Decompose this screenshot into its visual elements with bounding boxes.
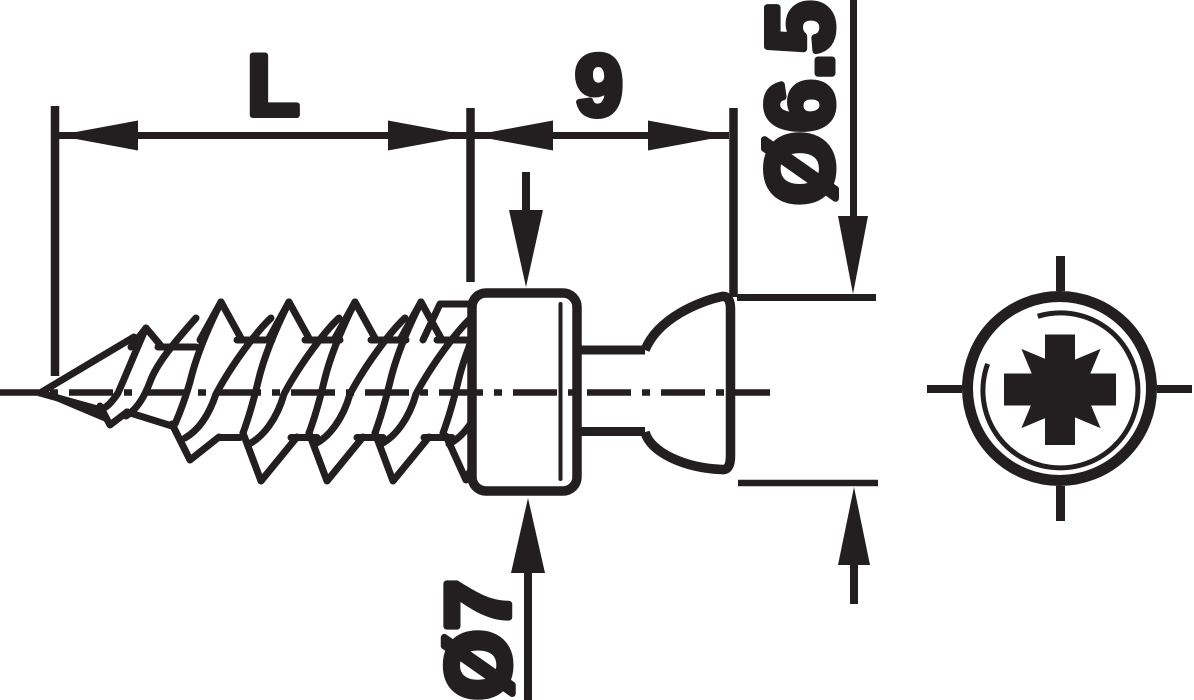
centerline tick bottom [1056, 486, 1065, 521]
dimension line L [58, 132, 468, 139]
dimension arrow for collar bottom (diameter 7) [524, 570, 532, 700]
dimension line diameter 6.5 top [850, 0, 857, 218]
dimension arrow diameter 6.5 bottom [850, 565, 858, 604]
arrowhead L right [388, 121, 469, 151]
neck top line [575, 346, 652, 355]
svg-text:Ø6.5: Ø6.5 [747, 1, 852, 205]
dimension line 9 [472, 132, 729, 139]
head profile [645, 296, 731, 469]
head bottom extension line [738, 480, 878, 487]
neck bottom line [575, 427, 652, 436]
extension line left (at screw tip) [51, 106, 60, 376]
arrowhead 9 right [648, 121, 729, 151]
collar edge highlight [559, 304, 563, 479]
thread start (first small tooth near tip) [104, 318, 196, 416]
svg-text:Ø7: Ø7 [429, 580, 529, 700]
thread revolution 3 [309, 302, 406, 481]
extension line at head face [729, 108, 738, 297]
head end view: inner circle with gap [983, 313, 1138, 468]
thread revolution 1 [172, 302, 272, 460]
svg-text:9: 9 [575, 38, 623, 134]
thread revolution 2 [243, 302, 340, 481]
centerline (dash-dot) [0, 389, 770, 396]
collar (white filled, covers threads) [472, 293, 577, 491]
extension line at collar left [466, 108, 475, 282]
pozidriv recess cross [1004, 335, 1116, 446]
screw tip cone [40, 337, 172, 426]
arrowhead L left [57, 121, 138, 151]
head end view: outer circle [968, 297, 1152, 481]
dimension arrow for collar top (diameter 7) [522, 172, 530, 212]
centerline tick right [1157, 385, 1192, 393]
thread revolution 4 [375, 302, 472, 481]
thread last partial revolution at collar [423, 302, 539, 480]
centerline tick left [927, 385, 962, 393]
svg-text:L: L [247, 38, 300, 134]
head top extension line [737, 294, 876, 301]
centerline tick top [1056, 256, 1065, 291]
arrowhead 9 left [472, 121, 553, 151]
